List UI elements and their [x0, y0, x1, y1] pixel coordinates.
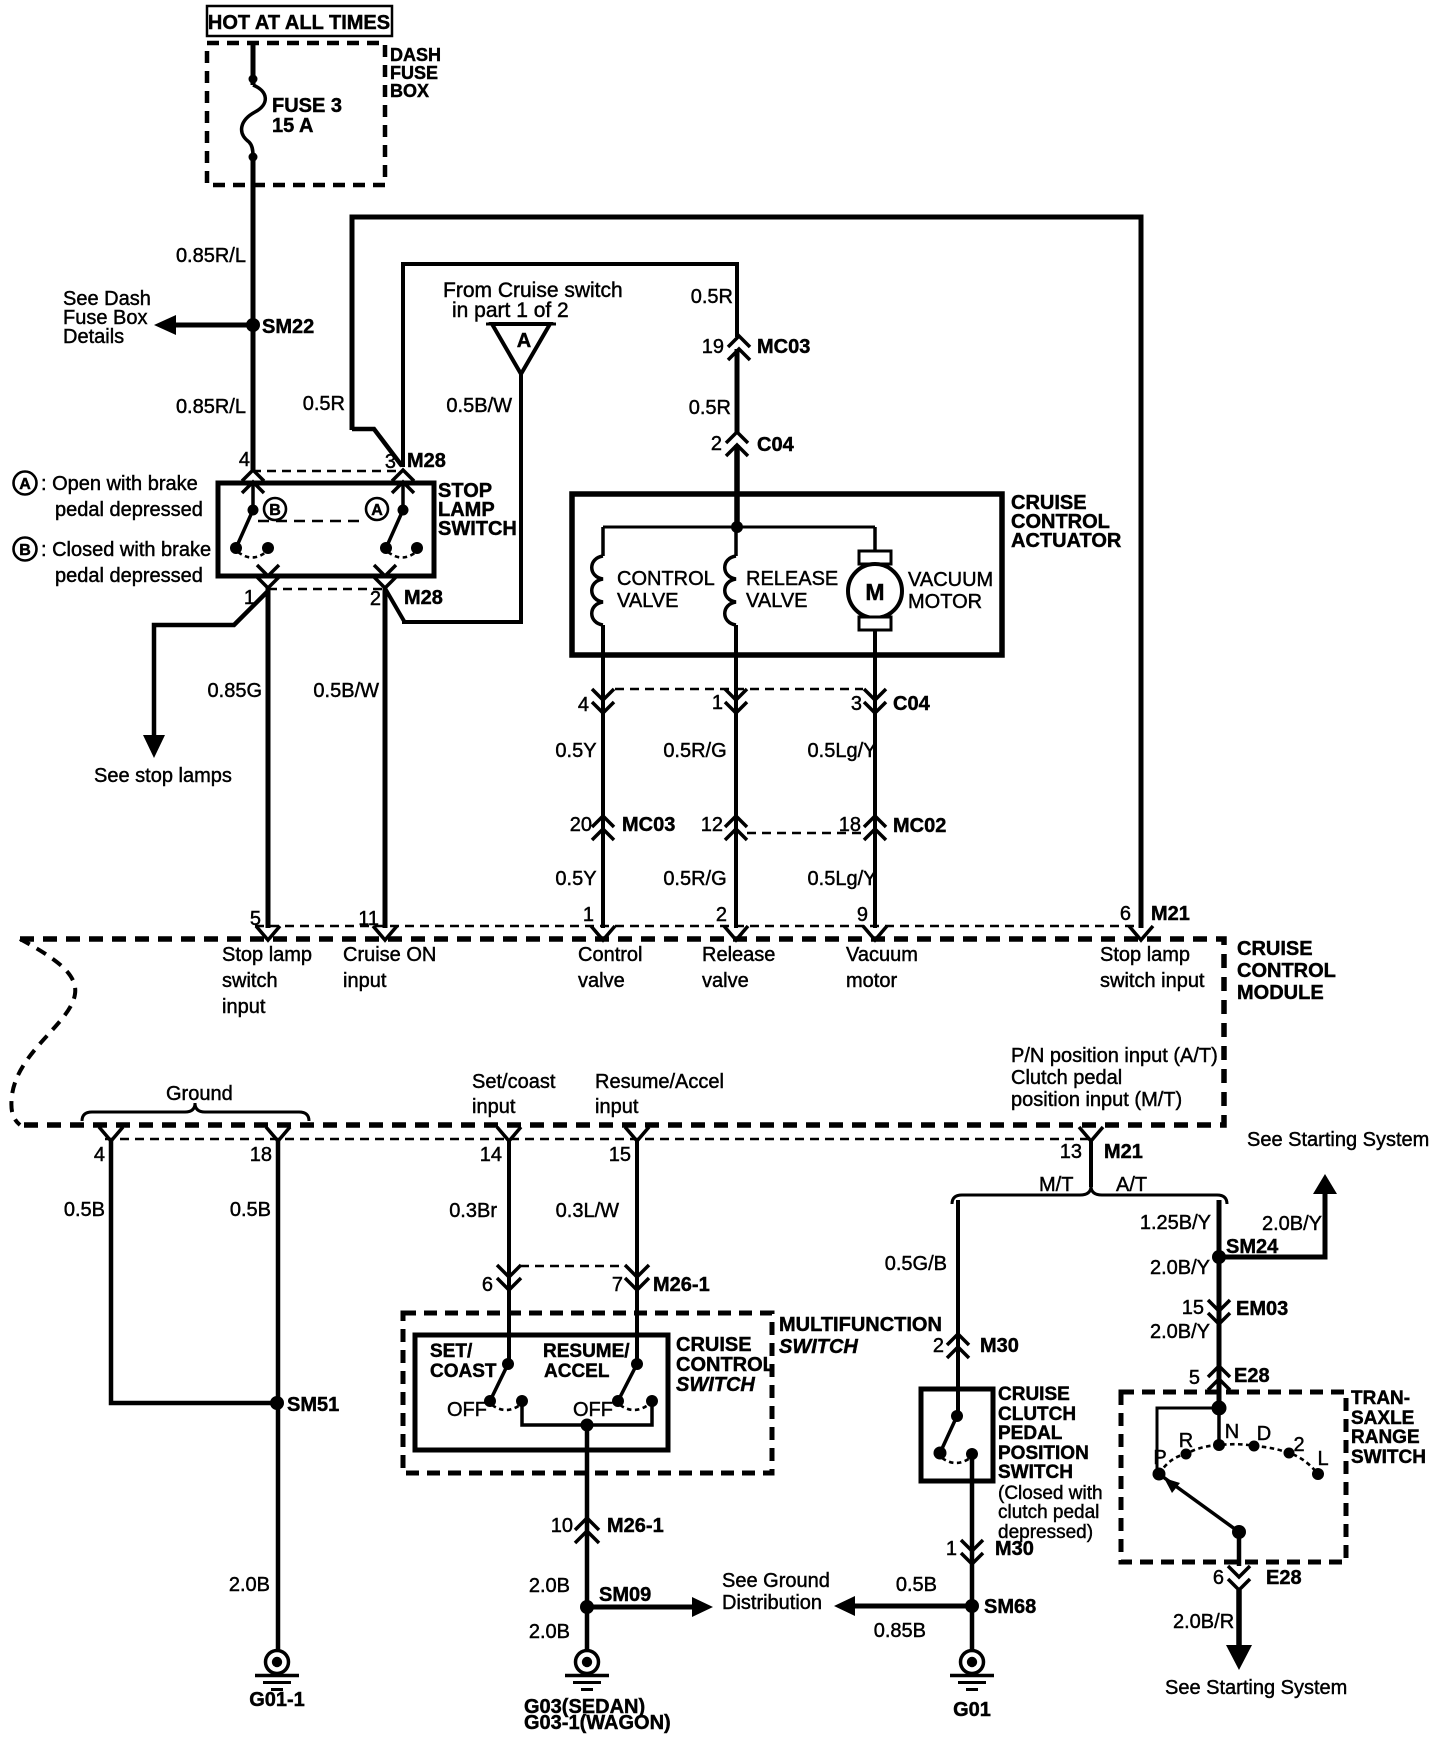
wire C04 into actuator — [734, 445, 740, 527]
connector C04 pins 4 1 3 — [578, 689, 931, 716]
svg-text:M28: M28 — [407, 450, 446, 472]
motor vacuum motor — [848, 527, 993, 630]
svg-text:MC03: MC03 — [622, 814, 675, 836]
wire 0.3L/W module pin 15 to M26-1 pin 7 — [556, 1141, 637, 1364]
svg-text:POSITION: POSITION — [998, 1443, 1089, 1464]
label Set/coast input — [472, 1071, 556, 1118]
connector M26-1 pins 6 and 7 — [482, 1265, 710, 1296]
svg-text:Details: Details — [63, 326, 124, 348]
svg-text:CRUISE: CRUISE — [998, 1384, 1070, 1405]
svg-text:G03-1(WAGON): G03-1(WAGON) — [524, 1712, 671, 1734]
svg-text:0.5B/W: 0.5B/W — [446, 395, 512, 417]
svg-text:See Ground: See Ground — [722, 1570, 830, 1592]
wire arrow to dash fuse box details — [154, 315, 253, 335]
svg-text:See stop lamps: See stop lamps — [94, 765, 232, 787]
connector M28 bottom (pins 1 and 2) — [244, 565, 443, 610]
svg-text:13: 13 — [1060, 1141, 1082, 1163]
svg-text:SM51: SM51 — [287, 1394, 339, 1416]
svg-text:2.0B/Y: 2.0B/Y — [1150, 1321, 1210, 1343]
svg-text:5: 5 — [250, 908, 261, 930]
label RESUME/ACCEL — [543, 1341, 630, 1382]
svg-text:3: 3 — [851, 693, 862, 715]
svg-text:VACUUM: VACUUM — [908, 569, 993, 591]
label SET/COAST — [430, 1341, 497, 1382]
svg-text:5: 5 — [1189, 1367, 1200, 1389]
legend circled B : Closed with brake pedal depressed — [14, 538, 212, 588]
svg-text:in part 1 of 2: in part 1 of 2 — [452, 299, 569, 322]
svg-text:RESUME/: RESUME/ — [543, 1341, 630, 1362]
wire 2.0B/R arrow to starting system — [1173, 1590, 1252, 1670]
switch range selector contacts P R N D 2 L — [1153, 1421, 1329, 1481]
svg-text:0.3L/W: 0.3L/W — [556, 1200, 619, 1222]
svg-text:M26-1: M26-1 — [653, 1274, 710, 1296]
svg-text:M26-1: M26-1 — [607, 1515, 664, 1537]
svg-text:11: 11 — [358, 908, 379, 930]
svg-text:15 A: 15 A — [272, 115, 314, 137]
svg-text:0.5B: 0.5B — [230, 1199, 271, 1221]
svg-text:B: B — [269, 502, 281, 519]
svg-text:10: 10 — [551, 1515, 573, 1537]
svg-text:7: 7 — [612, 1274, 623, 1296]
svg-text:L: L — [1317, 1448, 1328, 1470]
node transaxle feed junction — [1212, 1401, 1227, 1416]
svg-text:18: 18 — [839, 814, 861, 836]
svg-text:0.5R/G: 0.5R/G — [663, 740, 726, 762]
svg-text:3: 3 — [385, 451, 396, 473]
switch set/coast — [447, 1358, 528, 1421]
svg-text:N: N — [1225, 1421, 1239, 1443]
svg-text:SWITCH: SWITCH — [998, 1462, 1073, 1483]
svg-text:2.0B/Y: 2.0B/Y — [1150, 1257, 1210, 1279]
label CRUISE CONTROL ACTUATOR — [1011, 492, 1122, 552]
svg-text:0.5Y: 0.5Y — [555, 868, 596, 890]
svg-text:D: D — [1257, 1423, 1271, 1445]
node SM22 — [246, 316, 314, 338]
svg-text:P: P — [1153, 1447, 1166, 1469]
svg-text:Cruise ON: Cruise ON — [343, 944, 436, 966]
cruise clutch pedal position switch box — [921, 1389, 993, 1481]
wire see stop lamps branch — [94, 590, 269, 787]
wire common output to ground G03 — [585, 1425, 590, 1650]
svg-text:E28: E28 — [1266, 1567, 1302, 1589]
node actuator feed junction — [731, 521, 743, 533]
module pin 2 — [716, 904, 748, 940]
fuse FUSE 3 15 A — [242, 75, 342, 162]
svg-text:1: 1 — [946, 1538, 957, 1560]
label Resume/Accel input — [595, 1071, 724, 1118]
svg-text:input: input — [343, 970, 387, 992]
svg-text:Clutch pedal: Clutch pedal — [1011, 1067, 1122, 1089]
wire stop lamp switch pin 3 to cruise control actuator feed — [403, 264, 737, 467]
label DASH FUSE BOX — [390, 45, 441, 101]
svg-text:2: 2 — [1293, 1434, 1304, 1456]
svg-text:C04: C04 — [893, 693, 931, 715]
module bottom pin link dashed — [105, 1138, 1095, 1141]
brace M/T A/T split — [952, 1174, 1227, 1204]
wire 0.5R MC03 to C04 — [689, 349, 737, 433]
module pin 1 — [583, 904, 615, 940]
stop lamp switch box — [218, 483, 434, 576]
svg-text:CRUISE: CRUISE — [676, 1334, 752, 1356]
connector E28 pin 6 — [1213, 1566, 1302, 1590]
mechanical link dashed — [258, 520, 366, 523]
connector MC03 pin 19 — [702, 336, 811, 360]
svg-text:6: 6 — [482, 1274, 493, 1296]
svg-text:SWITCH: SWITCH — [779, 1336, 858, 1358]
label CRUISE CLUTCH PEDAL POSITION SWITCH — [998, 1384, 1103, 1543]
svg-text:A: A — [19, 476, 31, 493]
svg-text:RELEASE: RELEASE — [746, 568, 838, 590]
switch resume/accel — [573, 1358, 658, 1421]
wire release valve to module pin 2 — [734, 625, 738, 928]
svg-text:1.25B/Y: 1.25B/Y — [1140, 1212, 1211, 1234]
connector E28 pin 5 — [1189, 1365, 1270, 1390]
wire 0.85R/L fuse to stop lamp switch pin 4 — [176, 157, 253, 470]
wire 0.5B/W triangle A to stop lamp switch pin 2 — [386, 374, 521, 622]
svg-text:A: A — [517, 330, 531, 352]
connector M26-1 pin 10 — [551, 1515, 664, 1543]
multifunction switch box (dashed) — [403, 1313, 772, 1473]
svg-text:P/N position input (A/T): P/N position input (A/T) — [1011, 1045, 1218, 1067]
cruise control actuator box — [572, 494, 1002, 655]
svg-text:0.5B: 0.5B — [896, 1574, 937, 1596]
svg-text:Set/coast: Set/coast — [472, 1071, 556, 1093]
svg-text:Release: Release — [702, 944, 775, 966]
svg-text:4: 4 — [578, 694, 589, 716]
svg-text:SWITCH: SWITCH — [438, 518, 517, 540]
svg-text:A/T: A/T — [1116, 1174, 1147, 1196]
module pin function labels top — [222, 944, 1205, 1018]
svg-text:4: 4 — [239, 449, 250, 471]
svg-text:14: 14 — [480, 1144, 502, 1166]
triangle connector A from cruise switch — [486, 324, 556, 374]
svg-text:0.5R/G: 0.5R/G — [663, 868, 726, 890]
svg-text:2.0B/R: 2.0B/R — [1173, 1611, 1234, 1633]
module pin 9 — [857, 904, 887, 940]
svg-text:FUSE: FUSE — [390, 63, 438, 83]
svg-text:A: A — [371, 502, 383, 519]
brace Ground — [82, 1083, 309, 1121]
label P/N position input / clutch pedal position input — [1011, 1045, 1218, 1111]
wire 0.5R bus from stop lamp switch to module pin 6 — [303, 217, 1141, 928]
svg-text:valve: valve — [702, 970, 749, 992]
wire switch common to output — [522, 1401, 652, 1425]
svg-text:E28: E28 — [1234, 1365, 1270, 1387]
label See Dash Fuse Box Details — [63, 288, 151, 348]
wire 2.0B/Y SM24 up to starting system — [1219, 1174, 1337, 1257]
wire module pin 13 to M/T-A/T split — [1089, 1141, 1093, 1187]
svg-text:G01-1: G01-1 — [249, 1689, 305, 1711]
wire actuator internal distribution — [603, 526, 875, 529]
svg-text:B: B — [19, 542, 31, 559]
svg-text:CLUTCH: CLUTCH — [998, 1404, 1076, 1425]
svg-text:: Open with brake: : Open with brake — [41, 473, 198, 495]
wire clutch switch to SM68 and ground G01 — [970, 1454, 975, 1650]
svg-text:0.85R/L: 0.85R/L — [176, 396, 246, 418]
coil control valve — [592, 527, 715, 625]
connector M28 top (pins 4 and 3) — [239, 449, 446, 493]
svg-text:CONTROL: CONTROL — [1237, 960, 1336, 982]
svg-text:0.3Br: 0.3Br — [449, 1200, 497, 1222]
wire wiper to E28 pin 6 — [1237, 1532, 1242, 1566]
svg-text:M30: M30 — [995, 1538, 1034, 1560]
svg-text:position input (M/T): position input (M/T) — [1011, 1089, 1182, 1111]
svg-text:input: input — [595, 1096, 639, 1118]
svg-text:2: 2 — [711, 433, 722, 455]
connector EM03 pin 15 — [1182, 1297, 1289, 1324]
svg-text:: Closed with brake: : Closed with brake — [41, 539, 211, 561]
svg-text:0.5G/B: 0.5G/B — [885, 1253, 947, 1275]
connector M30 pin 2 — [933, 1334, 1019, 1358]
svg-text:M: M — [865, 579, 884, 605]
svg-text:See Starting System: See Starting System — [1247, 1129, 1429, 1151]
svg-text:6: 6 — [1213, 1567, 1224, 1589]
svg-text:BOX: BOX — [390, 81, 429, 101]
svg-text:CONTROL: CONTROL — [676, 1354, 775, 1376]
svg-text:4: 4 — [94, 1144, 105, 1166]
label See Ground Distribution — [722, 1570, 830, 1614]
svg-text:M21: M21 — [1151, 903, 1190, 925]
connector M30 pin 1 — [946, 1538, 1034, 1564]
svg-text:2: 2 — [370, 588, 381, 610]
module pin 6 and M21 — [1120, 903, 1190, 940]
svg-text:0.85B: 0.85B — [874, 1620, 926, 1642]
module pin 5 — [250, 908, 280, 940]
node SM09 — [580, 1584, 651, 1614]
wire 0.85G stop lamp switch pin 1 to module pin 5 — [208, 588, 268, 928]
label MULTIFUNCTION SWITCH — [779, 1314, 942, 1358]
wire arrow SM09 to ground distribution — [587, 1597, 713, 1617]
transaxle range switch box (dashed) — [1121, 1392, 1346, 1562]
svg-text:COAST: COAST — [430, 1361, 497, 1382]
svg-text:M21: M21 — [1104, 1141, 1143, 1163]
svg-text:MULTIFUNCTION: MULTIFUNCTION — [779, 1314, 942, 1336]
switch A (right contact set) — [366, 482, 423, 558]
ground G03 — [524, 1651, 671, 1735]
wire 0.3Br module pin 14 to M26-1 pin 6 — [449, 1141, 509, 1364]
wire 0.5B module pin 4 to SM51 — [64, 1141, 272, 1403]
node SM68 — [965, 1596, 1036, 1618]
svg-text:1: 1 — [583, 904, 594, 926]
svg-text:2: 2 — [716, 904, 727, 926]
svg-text:0.5R: 0.5R — [689, 397, 731, 419]
label STOP LAMP SWITCH — [438, 480, 517, 540]
svg-text:G01: G01 — [953, 1699, 991, 1721]
svg-text:0.85R/L: 0.85R/L — [176, 245, 246, 267]
svg-text:MOTOR: MOTOR — [908, 591, 982, 613]
svg-text:2.0B: 2.0B — [529, 1621, 570, 1643]
svg-text:PEDAL: PEDAL — [998, 1423, 1063, 1444]
svg-text:Vacuum: Vacuum — [846, 944, 918, 966]
svg-text:motor: motor — [846, 970, 897, 992]
svg-text:2.0B: 2.0B — [529, 1575, 570, 1597]
svg-text:VALVE: VALVE — [746, 590, 808, 612]
svg-text:SM68: SM68 — [984, 1596, 1036, 1618]
svg-text:18: 18 — [250, 1144, 272, 1166]
svg-text:HOT AT ALL TIMES: HOT AT ALL TIMES — [208, 12, 390, 34]
connector C04 pin 2 — [711, 432, 795, 456]
label CRUISE CONTROL SWITCH — [676, 1334, 775, 1396]
svg-text:0.85G: 0.85G — [208, 680, 262, 702]
svg-text:Stop lamp: Stop lamp — [222, 944, 312, 966]
wire 0.5B module pin 18 to ground G01-1 — [230, 1141, 278, 1650]
svg-text:0.5R: 0.5R — [303, 393, 345, 415]
module pin 4 — [94, 1127, 123, 1166]
svg-text:SM22: SM22 — [262, 316, 314, 338]
node SM24 — [1212, 1236, 1279, 1264]
node switch common junction — [581, 1419, 594, 1432]
module pin 14 — [480, 1127, 521, 1166]
svg-text:(Closed with: (Closed with — [998, 1483, 1103, 1504]
wire 0.5G/B M/T branch to M30 pin 2 — [885, 1200, 958, 1416]
svg-text:Stop lamp: Stop lamp — [1100, 944, 1190, 966]
svg-text:valve: valve — [578, 970, 625, 992]
svg-text:M/T: M/T — [1039, 1174, 1073, 1196]
wire 0.5B/W stop lamp switch pin 2 to module pin 11 — [313, 588, 385, 928]
svg-text:19: 19 — [702, 336, 724, 358]
svg-text:RANGE: RANGE — [1351, 1427, 1420, 1448]
svg-text:M30: M30 — [980, 1335, 1019, 1357]
svg-text:OFF: OFF — [573, 1399, 613, 1421]
svg-text:SWITCH: SWITCH — [676, 1374, 755, 1396]
svg-text:0.5Lg/Y: 0.5Lg/Y — [808, 868, 877, 890]
wire vacuum motor to module pin 9 — [873, 630, 877, 928]
wire battery feed into fuse — [251, 42, 256, 85]
svg-text:SM09: SM09 — [599, 1584, 651, 1606]
svg-text:input: input — [472, 1096, 516, 1118]
label HOT AT ALL TIMES — [207, 6, 392, 36]
legend circled A : Open with brake pedal depressed — [14, 472, 203, 522]
cruise control module box (dashed) — [11, 939, 1224, 1125]
svg-text:SET/: SET/ — [430, 1341, 473, 1362]
svg-text:Distribution: Distribution — [722, 1592, 822, 1614]
svg-text:VALVE: VALVE — [617, 590, 679, 612]
svg-text:MODULE: MODULE — [1237, 982, 1324, 1004]
svg-text:TRAN-: TRAN- — [1351, 1388, 1410, 1409]
dash fuse box (dashed enclosure) — [207, 43, 385, 185]
label TRAN-SAXLE RANGE SWITCH — [1351, 1388, 1426, 1468]
svg-text:R: R — [1179, 1430, 1193, 1452]
svg-text:input: input — [222, 996, 266, 1018]
svg-text:EM03: EM03 — [1236, 1298, 1288, 1320]
svg-text:0.5R: 0.5R — [691, 286, 733, 308]
switch B (left contact set) — [230, 482, 286, 558]
wire junction to N contact — [1217, 1408, 1221, 1445]
svg-text:C04: C04 — [757, 434, 795, 456]
svg-text:MC02: MC02 — [893, 815, 946, 837]
svg-text:Resume/Accel: Resume/Accel — [595, 1071, 724, 1093]
svg-text:Control: Control — [578, 944, 642, 966]
svg-text:CONTROL: CONTROL — [617, 568, 715, 590]
svg-text:12: 12 — [701, 814, 723, 836]
label CRUISE CONTROL MODULE — [1237, 938, 1336, 1004]
node SM51 — [270, 1394, 339, 1416]
svg-text:FUSE 3: FUSE 3 — [272, 95, 342, 117]
svg-text:switch: switch — [222, 970, 278, 992]
wire control valve to module pin 1 — [601, 625, 605, 928]
svg-text:pedal depressed: pedal depressed — [55, 499, 203, 521]
svg-text:MC03: MC03 — [757, 336, 810, 358]
wire A/T branch 1.25B/Y to SM24 and transaxle — [1140, 1200, 1219, 1408]
svg-text:See Starting System: See Starting System — [1165, 1677, 1347, 1699]
wire arrow SM68 to ground distribution — [834, 1596, 972, 1616]
svg-text:15: 15 — [1182, 1297, 1204, 1319]
wire labels 0.5Y 0.5R/G 0.5Lg/Y upper — [555, 740, 876, 762]
switch wiper arm to P — [1159, 1474, 1246, 1539]
svg-text:20: 20 — [570, 814, 592, 836]
svg-text:0.5B/W: 0.5B/W — [313, 680, 379, 702]
svg-text:OFF: OFF — [447, 1399, 487, 1421]
svg-text:2.0B: 2.0B — [229, 1574, 270, 1596]
module pin 13 and M21 — [1060, 1127, 1143, 1163]
svg-text:0.5Lg/Y: 0.5Lg/Y — [808, 740, 877, 762]
svg-text:15: 15 — [609, 1144, 631, 1166]
svg-text:9: 9 — [857, 904, 868, 926]
wire junction to P contact — [1157, 1408, 1219, 1470]
svg-text:M28: M28 — [404, 587, 443, 609]
module pin 18 — [250, 1127, 290, 1166]
wire labels 0.5Y 0.5R/G 0.5Lg/Y lower — [555, 868, 876, 890]
svg-text:Ground: Ground — [166, 1083, 233, 1105]
ground G01-1 — [249, 1651, 305, 1712]
svg-text:pedal depressed: pedal depressed — [55, 565, 203, 587]
svg-text:2.0B/Y: 2.0B/Y — [1262, 1213, 1322, 1235]
svg-text:ACTUATOR: ACTUATOR — [1011, 530, 1122, 552]
svg-text:DASH: DASH — [390, 45, 441, 65]
module pin 15 — [609, 1127, 649, 1166]
ground G01 — [950, 1651, 994, 1722]
svg-text:6: 6 — [1120, 903, 1131, 925]
svg-text:clutch pedal: clutch pedal — [998, 1502, 1099, 1523]
switch clutch pedal — [934, 1410, 979, 1463]
svg-text:1: 1 — [712, 692, 723, 714]
svg-text:SWITCH: SWITCH — [1351, 1447, 1426, 1468]
cruise control switch box — [415, 1335, 668, 1450]
svg-text:ACCEL: ACCEL — [544, 1361, 610, 1382]
svg-text:switch input: switch input — [1100, 970, 1205, 992]
svg-text:CRUISE: CRUISE — [1237, 938, 1313, 960]
connector MC03 pin 20 — [570, 814, 676, 840]
label From Cruise switch in part 1 of 2 — [443, 279, 623, 322]
svg-text:0.5B: 0.5B — [64, 1199, 105, 1221]
svg-text:SAXLE: SAXLE — [1351, 1408, 1414, 1429]
svg-text:2: 2 — [933, 1335, 944, 1357]
coil release valve — [725, 527, 839, 625]
module top pin link dashed — [255, 925, 1142, 928]
svg-text:0.5Y: 0.5Y — [555, 740, 596, 762]
module pin 11 — [358, 908, 397, 940]
connector MC02 pins 12 and 18 — [701, 814, 947, 840]
